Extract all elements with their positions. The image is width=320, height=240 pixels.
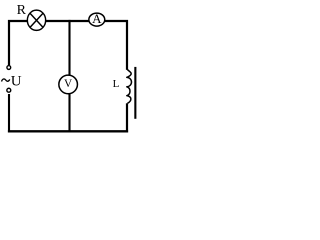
voltmeter V bbox=[59, 75, 78, 94]
inductor L coil bbox=[127, 69, 132, 103]
ammeter A bbox=[89, 11, 105, 26]
svg-text:L: L bbox=[113, 78, 120, 90]
label ~ (AC tilde) bbox=[2, 79, 10, 82]
svg-text:U: U bbox=[11, 74, 22, 90]
inductor core line bbox=[134, 67, 136, 119]
lamp R (circle with X) bbox=[27, 10, 45, 30]
wire: voltmeter branch top bbox=[68, 20, 70, 76]
wire: coil bottom to bottom-right corner bbox=[126, 103, 128, 132]
svg-text:R: R bbox=[17, 3, 27, 18]
wire: ammeter to top-right corner bbox=[105, 21, 127, 70]
wire: top-left corner (source branch up to lamp) bbox=[9, 21, 28, 65]
AC source U: bottom terminal bbox=[7, 88, 11, 92]
svg-text:A: A bbox=[92, 11, 102, 26]
wire: bottom bbox=[8, 130, 128, 132]
wire: bottom-left vertical (bottom to source) bbox=[8, 94, 10, 132]
wire: lamp to ammeter bbox=[46, 20, 89, 22]
AC source U: top terminal bbox=[7, 66, 11, 70]
svg-text:V: V bbox=[64, 78, 73, 90]
wire: voltmeter branch bottom bbox=[68, 93, 70, 131]
